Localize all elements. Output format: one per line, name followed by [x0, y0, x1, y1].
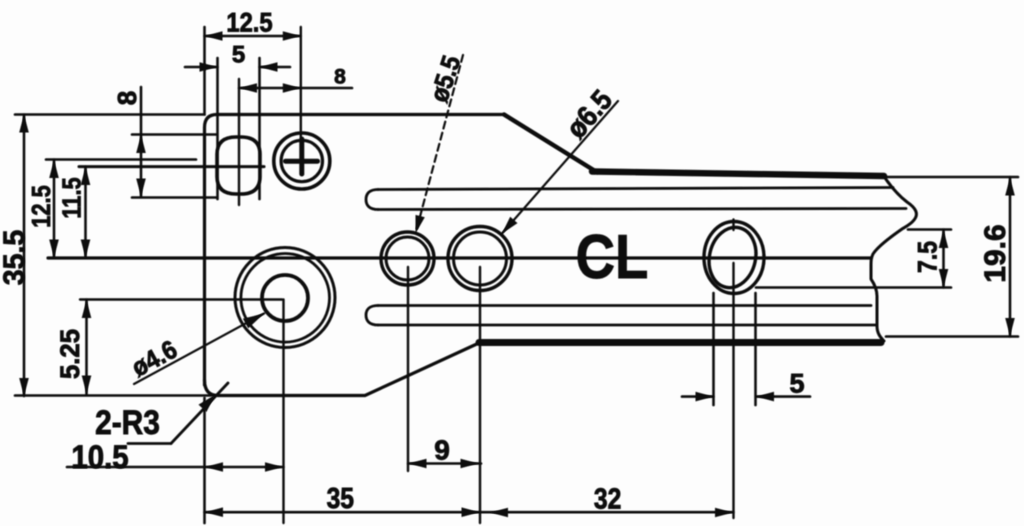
- svg-text:5.25: 5.25: [54, 329, 85, 379]
- svg-text:32: 32: [594, 483, 621, 515]
- svg-text:8: 8: [112, 91, 142, 105]
- svg-text:2-R3: 2-R3: [95, 403, 160, 441]
- svg-text:CL: CL: [576, 223, 649, 292]
- svg-text:19.6: 19.6: [979, 224, 1012, 282]
- svg-text:35.5: 35.5: [0, 230, 31, 285]
- svg-text:12.5: 12.5: [226, 8, 272, 38]
- svg-text:5: 5: [789, 369, 804, 399]
- svg-text:12.5: 12.5: [27, 185, 56, 227]
- svg-text:11.5: 11.5: [58, 177, 87, 218]
- svg-text:9: 9: [434, 435, 450, 466]
- svg-text:7.5: 7.5: [913, 241, 943, 273]
- svg-text:35: 35: [327, 482, 354, 514]
- svg-text:8: 8: [334, 66, 346, 89]
- svg-text:10.5: 10.5: [71, 439, 128, 475]
- svg-text:5: 5: [232, 42, 245, 69]
